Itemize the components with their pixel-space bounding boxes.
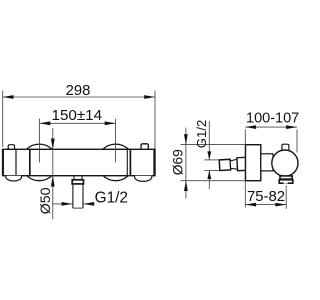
dim G12 side extension bottom	[204, 170, 219, 172]
dim 75-82 arrow left	[245, 203, 256, 207]
body outline	[3, 149, 155, 175]
left cap thick edge	[2, 149, 4, 175]
dim O69 line	[185, 128, 187, 199]
dim G12 side arrow down	[207, 151, 211, 160]
right bottom union	[135, 176, 152, 182]
dim 298 extension right	[154, 91, 156, 149]
side body circle	[272, 150, 298, 176]
dim G12 side line lower	[208, 171, 210, 190]
svg-text:75-82: 75-82	[247, 189, 285, 205]
side in-wall fitting (tilted group)	[219, 157, 246, 171]
dim 150 arrow right	[105, 121, 116, 125]
dim 75-82 extension right	[285, 186, 287, 209]
left cap right edge	[15, 149, 17, 175]
dim O69 extension top	[181, 144, 246, 146]
dim O50 arrow up	[51, 176, 55, 187]
dim O69 arrow up	[184, 181, 188, 191]
dim G12 front line right	[83, 203, 94, 205]
svg-text:Ø69: Ø69	[171, 149, 186, 175]
side escutcheon plate	[246, 145, 261, 181]
right ring line	[126, 149, 128, 175]
side outlet collar	[280, 176, 292, 179]
dim 298 line	[3, 96, 155, 98]
outlet tube	[72, 184, 74, 208]
outlet neck	[73, 176, 75, 180]
in-wall union nut	[237, 157, 246, 170]
svg-text:100-107: 100-107	[246, 111, 299, 127]
dim 100-107 arrow right	[286, 125, 297, 129]
left escutcheon circle	[21, 144, 58, 181]
outlet tube bottom	[73, 207, 83, 209]
dim 100-107 extension right	[296, 130, 298, 153]
svg-text:G1/2: G1/2	[194, 120, 209, 149]
dim G12 front arrow right-pointing	[62, 202, 73, 206]
side outlet nut	[279, 180, 293, 183]
dim 150 arrow left	[40, 121, 51, 125]
dim G12 side extension top	[204, 159, 219, 161]
right cap thick edge	[153, 149, 155, 175]
dim 75-82 arrow right	[275, 203, 286, 207]
svg-text:150±14: 150±14	[52, 107, 103, 124]
outlet collar	[72, 180, 83, 184]
dim 100-107 line	[245, 126, 297, 128]
side union nut	[261, 154, 273, 171]
dim 75-82 line	[245, 204, 286, 206]
in-wall flare	[230, 159, 237, 169]
dim 150 extension right	[115, 119, 117, 163]
right escutcheon circle	[97, 144, 134, 181]
right handle left edge	[129, 149, 131, 175]
side wall line	[244, 129, 246, 207]
dim O50 line	[52, 128, 54, 219]
left nut edge	[29, 149, 31, 175]
dim O69 extension bottom	[181, 180, 246, 182]
dim 100-107 arrow left	[245, 125, 256, 129]
dim O50 arrow down	[51, 139, 55, 150]
dim G12 front line left	[53, 203, 73, 205]
dim 298 arrow left	[3, 95, 14, 99]
dim G12 side arrow up	[207, 171, 211, 180]
dim 298 extension left	[2, 91, 4, 147]
body fill	[3, 149, 155, 175]
left top knob	[8, 145, 14, 151]
svg-text:Ø50: Ø50	[38, 187, 54, 214]
dim G12 front arrow left-pointing	[83, 202, 94, 206]
dim 298 arrow right	[144, 95, 155, 99]
svg-text:298: 298	[66, 83, 91, 99]
side top knob	[282, 144, 289, 152]
svg-text:G1/2: G1/2	[95, 189, 128, 206]
side outlet nut notch	[284, 181, 288, 184]
left bottom union	[6, 176, 22, 181]
right top knob	[141, 144, 148, 151]
in-wall thread block	[219, 159, 230, 170]
dim G12 side line upper	[208, 121, 210, 160]
dim 150 line	[40, 122, 116, 124]
dim O69 arrow down	[184, 134, 188, 144]
dim 150 extension left	[39, 119, 41, 163]
